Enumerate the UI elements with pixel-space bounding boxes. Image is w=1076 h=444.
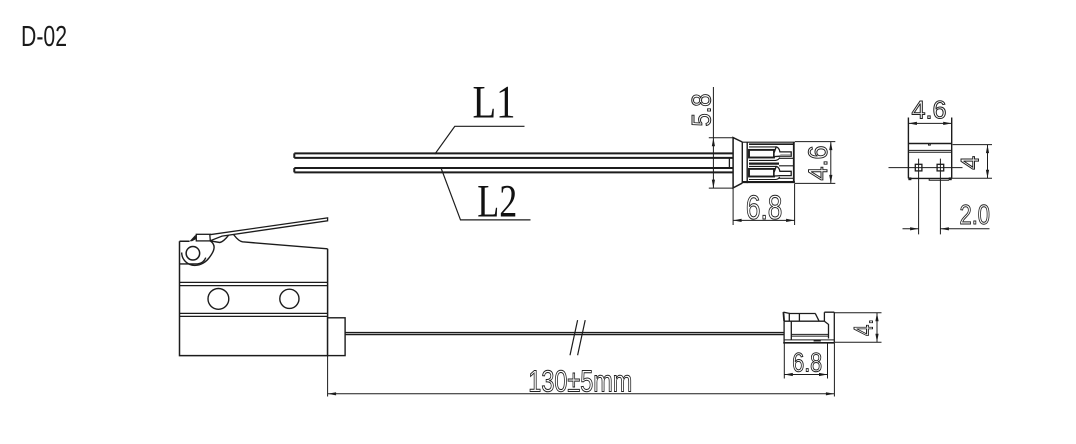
connector body right edge	[793, 142, 795, 182]
dim 4.6 (rear) line	[908, 122, 951, 124]
wire merge bridge	[728, 158, 730, 168]
rear view top notch	[929, 144, 931, 146]
rear view seam lines	[908, 150, 951, 152]
dim 4 (side) extension lines	[834, 313, 881, 343]
dim 6.8 (side) line	[784, 374, 827, 376]
connector boot (strain relief)	[733, 138, 742, 188]
dim 5.8 extension lines	[709, 138, 733, 188]
wire break symbol	[570, 320, 585, 355]
terminal T2	[749, 166, 793, 179]
pin centerlines vertical	[919, 159, 941, 235]
switch body	[180, 241, 328, 355]
rear view corner feet	[908, 177, 911, 180]
dim 4 (side) line	[876, 313, 878, 343]
wire L1	[294, 153, 733, 158]
svg-text:4: 4	[957, 156, 985, 170]
rear view body	[908, 118, 951, 179]
dim 6.8 (top connector) extension lines	[733, 183, 795, 225]
svg-text:L2: L2	[477, 176, 517, 228]
rear view bottom lip	[929, 178, 949, 180]
svg-text:130±5mm: 130±5mm	[528, 363, 632, 398]
svg-text:5.8: 5.8	[687, 94, 717, 127]
housing right block	[824, 312, 834, 321]
mounting hole left	[208, 289, 229, 310]
svg-text:4.: 4.	[849, 319, 879, 336]
body seam lines lower	[180, 313, 328, 316]
svg-text:4.6: 4.6	[912, 97, 947, 125]
pivot circle	[186, 247, 200, 260]
svg-text:D-02: D-02	[21, 21, 67, 53]
leader L2	[441, 168, 530, 220]
dim 2.0 line segments	[903, 228, 990, 230]
wire slot	[791, 334, 828, 336]
lead wire	[345, 333, 784, 335]
hinge block	[196, 234, 210, 241]
svg-text:6.8: 6.8	[792, 348, 822, 378]
dim 130 extension lines	[328, 343, 835, 397]
body seam lines upper	[180, 282, 328, 285]
bottom notch	[814, 340, 821, 342]
dim 6.8 (side) extension lines	[784, 343, 827, 379]
clamp bottom line	[180, 258, 206, 264]
top edge with plunger bump	[210, 233, 327, 249]
dim 130 line	[328, 393, 835, 395]
housing bottom	[784, 339, 834, 341]
wire L2	[294, 168, 733, 172]
mounting hole right	[280, 289, 299, 308]
connector body outline	[742, 141, 795, 143]
housing top band	[789, 313, 815, 315]
svg-text:L1: L1	[473, 77, 516, 129]
connector body walls	[742, 142, 747, 183]
leader L1	[435, 126, 525, 154]
clamp wedge	[190, 235, 197, 242]
clamp outer boundary	[182, 241, 214, 266]
lever arm	[210, 218, 328, 241]
svg-text:2.0: 2.0	[960, 199, 991, 230]
latch tab	[782, 312, 785, 321]
dim 6.8 line	[733, 219, 795, 221]
dim 4 (rear) line	[987, 145, 989, 179]
housing left edge	[783, 321, 785, 343]
dim 4 (rear) extension lines	[951, 145, 992, 179]
svg-text:4.6: 4.6	[803, 146, 833, 181]
dim 4.6 (mid) extension lines	[795, 142, 835, 184]
dim 4.6 line	[830, 142, 832, 184]
terminal T1	[749, 144, 793, 166]
svg-text:6.8: 6.8	[746, 189, 783, 227]
terminal block	[328, 318, 346, 356]
dim 5.8 line	[712, 87, 714, 188]
pin squares	[915, 164, 922, 171]
pin centerline horizontal	[889, 167, 963, 169]
